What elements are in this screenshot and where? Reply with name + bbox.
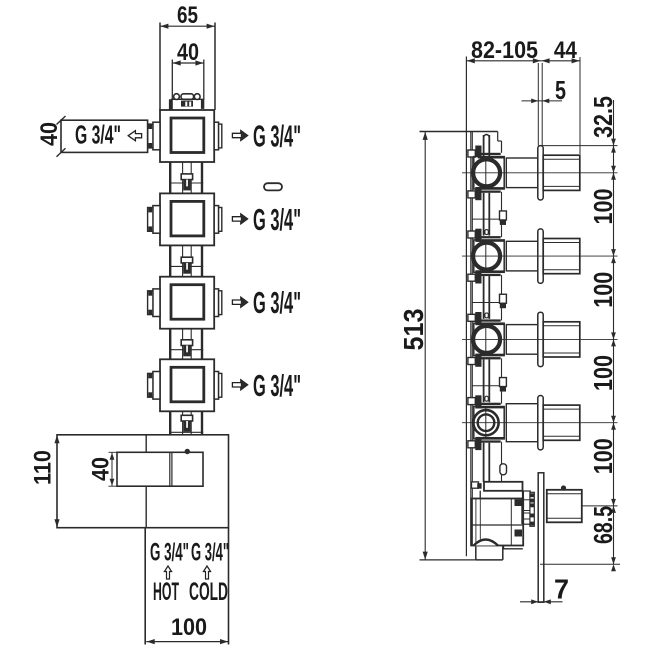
svg-text:G 3/4": G 3/4" — [253, 119, 301, 154]
svg-text:G 3/4": G 3/4" — [191, 539, 229, 567]
svg-text:100: 100 — [588, 355, 618, 391]
svg-text:G 3/4": G 3/4" — [253, 202, 301, 237]
svg-text:110: 110 — [30, 450, 57, 485]
svg-text:7: 7 — [554, 574, 569, 605]
svg-text:44: 44 — [554, 37, 578, 64]
svg-text:513: 513 — [398, 309, 429, 351]
svg-text:G 3/4": G 3/4" — [253, 368, 301, 403]
svg-text:G 3/4": G 3/4" — [75, 120, 121, 150]
svg-text:65: 65 — [177, 2, 198, 29]
svg-text:32.5: 32.5 — [588, 96, 618, 138]
svg-text:COLD: COLD — [189, 578, 228, 606]
svg-text:100: 100 — [588, 188, 618, 224]
svg-text:68.5: 68.5 — [588, 506, 618, 544]
svg-text:40: 40 — [177, 39, 199, 66]
svg-text:HOT: HOT — [153, 578, 179, 606]
svg-text:82-105: 82-105 — [471, 37, 538, 64]
svg-text:G 3/4": G 3/4" — [253, 285, 301, 320]
svg-text:5: 5 — [555, 75, 566, 105]
svg-text:40: 40 — [88, 457, 115, 481]
svg-text:100: 100 — [588, 272, 618, 308]
svg-text:G 3/4": G 3/4" — [150, 539, 189, 567]
svg-text:100: 100 — [171, 614, 207, 641]
svg-text:100: 100 — [588, 438, 618, 474]
svg-text:40: 40 — [36, 122, 63, 146]
